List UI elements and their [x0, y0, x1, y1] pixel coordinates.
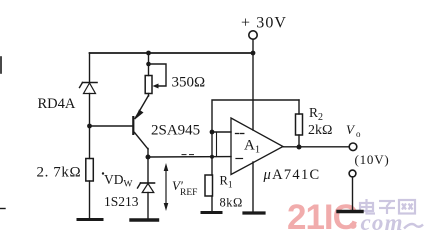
zi: [379, 200, 395, 202]
svg-text:o: o: [356, 129, 361, 139]
wire inverting node down to R1: [211, 132, 213, 175]
scan artifact left edge: [0, 57, 2, 73]
dian: [360, 203, 373, 211]
scan artifact ticks on wire: [182, 154, 186, 156]
node Vref junction: [146, 155, 151, 160]
zener diode RD4A: [80, 83, 98, 94]
terminal output return: [349, 170, 356, 177]
node rail/pot junction: [146, 51, 151, 56]
svg-text:(10V): (10V): [355, 152, 390, 167]
zener diode VDw 1S213: [138, 157, 155, 218]
watermark 21IC.com dianziwang: [287, 198, 423, 237]
op-amp ground pin: [252, 162, 254, 212]
wire parallel segment (scan double): [216, 133, 218, 157]
svg-text:+ 30V: + 30V: [241, 15, 287, 32]
node inverting input junction: [210, 130, 215, 135]
wire RD4A to base node: [89, 94, 91, 127]
ground (VDw): [131, 218, 158, 221]
wire base: [90, 125, 133, 127]
+30V supply terminal: [249, 31, 257, 39]
op-amp supply pin: [252, 53, 254, 130]
wire output: [283, 146, 349, 148]
svg-text:1S213: 1S213: [104, 194, 139, 209]
wire to inverting input: [212, 131, 231, 133]
arrow Vref: [164, 163, 169, 211]
node crossover: [210, 155, 214, 159]
op-amp A1: [231, 118, 283, 175]
resistor 2.7k: [86, 159, 94, 182]
svg-text:RD4A: RD4A: [38, 96, 76, 112]
ground (2.7k): [78, 218, 102, 221]
transistor Q1 2SA945: [132, 96, 148, 158]
svg-text:8kΩ: 8kΩ: [220, 196, 243, 210]
wire feedback R2-top to inverting node: [212, 100, 299, 132]
node output junction: [297, 145, 302, 150]
node rail/+30V junction: [251, 51, 256, 56]
terminal Vo: [349, 143, 357, 151]
wire terminal to ground: [352, 177, 354, 210]
svg-text:2SA945: 2SA945: [151, 123, 200, 139]
svg-text:REF: REF: [180, 188, 197, 198]
svg-text:21IC: 21IC: [287, 198, 358, 237]
wire Vref to op-amp noninverting input: [148, 156, 231, 158]
resistor R2: [296, 100, 303, 147]
svg-text:μA741C: μA741C: [263, 167, 321, 183]
resistor R1: [205, 175, 213, 196]
svg-text:2kΩ: 2kΩ: [308, 123, 332, 138]
node base junction: [87, 124, 92, 129]
wire rail to RD4A: [89, 53, 91, 82]
svg-text:2. 7kΩ: 2. 7kΩ: [37, 165, 82, 181]
potentiometer 350 ohm: [145, 53, 166, 96]
wire top rail: [90, 52, 254, 54]
wang: [399, 200, 415, 214]
svg-text:350Ω: 350Ω: [172, 75, 206, 91]
ground (output): [338, 210, 362, 213]
ground (R1): [202, 211, 221, 214]
ground (op-amp): [244, 211, 264, 214]
wire base node to 2.7k: [89, 126, 91, 159]
